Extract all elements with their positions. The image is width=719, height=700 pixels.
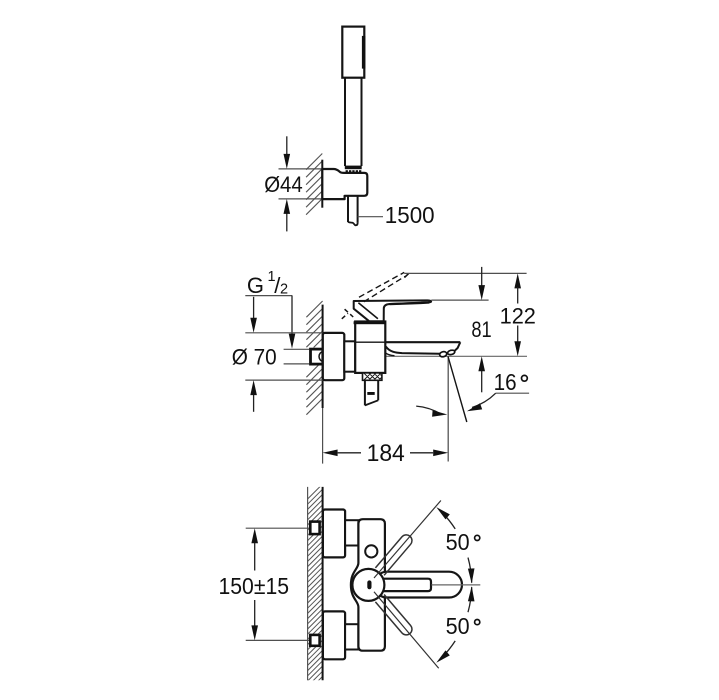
50 deg angle arc upper [442,513,455,529]
lower escutcheon flange (front) [323,611,345,659]
dimension G 1/2 label [247,269,288,298]
handle dome front edge [358,303,378,319]
wall line (side view) [322,305,324,408]
upper step cylinder (front) [345,520,358,545]
dimension Ø70 arrows [250,297,257,412]
union inner curve [319,351,323,361]
lower outlet pipe [365,380,378,405]
lever (front view) [374,572,462,598]
union nut (square) [311,349,323,364]
leader line 1500 [358,216,383,218]
50 deg diagonal line upper [374,501,441,579]
wall extension to 184 dimension [322,408,324,464]
hose connector knurl [345,166,362,173]
G 1/2 inlet pipe [284,349,310,364]
16 deg leader [496,392,529,394]
50 deg diagonal line lower [374,592,439,669]
cartridge seam (thick) [354,321,386,324]
raised handle tip cap [404,274,408,278]
svg-text:Ø44: Ø44 [264,172,303,197]
svg-text:50: 50 [446,529,470,555]
svg-text:150±15: 150±15 [219,573,290,599]
mixer body (front view) with hub bulge [351,519,385,651]
aerator [439,351,447,358]
dimension Ø70 extension lines [245,333,322,380]
16 deg angle arc left [416,406,447,417]
shower hose [348,196,358,226]
spout [355,342,460,357]
diverter knob circle [365,545,377,557]
dimension 150±15 extension lines [246,528,309,640]
svg-text:1500: 1500 [385,202,435,228]
raised handle (dashed) [342,272,409,318]
dimension 150±15 line and arrows [251,528,258,640]
ghost handle +50 deg [375,535,412,575]
centerline dash in union [312,355,320,357]
svg-text:81: 81 [471,317,491,342]
lower step cylinder (front) [345,624,358,649]
svg-text:122: 122 [500,304,536,329]
svg-text:16: 16 [494,369,517,395]
upper union square (front) [310,522,319,535]
extension line B (lever top) [431,299,488,301]
G 1/2 leader [245,296,295,349]
step cylinder [344,341,355,371]
hose coupling knurled nut [363,373,382,380]
wall line (top view) [321,160,323,208]
lower union square (front) [310,635,319,646]
shower handle [345,78,362,166]
shower head spray face [362,36,365,69]
vertical reference from outlet [447,356,449,461]
dimension 184 line [323,450,449,457]
water stream line 16 deg [448,356,467,422]
ghost handle -50 deg [375,595,412,635]
dimension Ø44 arrows [284,136,291,231]
dimension 81 arrows [478,267,485,392]
svg-text:G: G [247,273,264,298]
16 deg angle arc right [467,393,496,411]
dimension Ø44 extension lines [279,169,323,199]
lever handle (side view) [354,300,431,321]
mixer body (side view) [355,322,385,373]
shower holder bracket [322,169,367,199]
50 deg angle arc lower [468,587,472,612]
handle hub circle [352,569,384,601]
svg-text:50: 50 [446,613,470,639]
lever underside thick edge [390,303,430,305]
outlet level reference line [325,355,528,357]
centerline through lever [432,584,481,586]
hand shower head [342,27,364,78]
dimension 122 line [514,273,521,356]
escutcheon flange (side view) [323,333,345,380]
hub slot (dark) [367,580,371,589]
svg-text:Ø 70: Ø 70 [232,345,277,370]
wall hatching (top view) [306,154,322,215]
upper escutcheon flange (front) [323,510,345,558]
wall band edges [308,487,323,680]
extension line A (raised handle top) [404,272,526,274]
lever inner slot [384,579,432,591]
svg-text:184: 184 [367,440,405,467]
wall hatching (side view) [306,301,322,415]
